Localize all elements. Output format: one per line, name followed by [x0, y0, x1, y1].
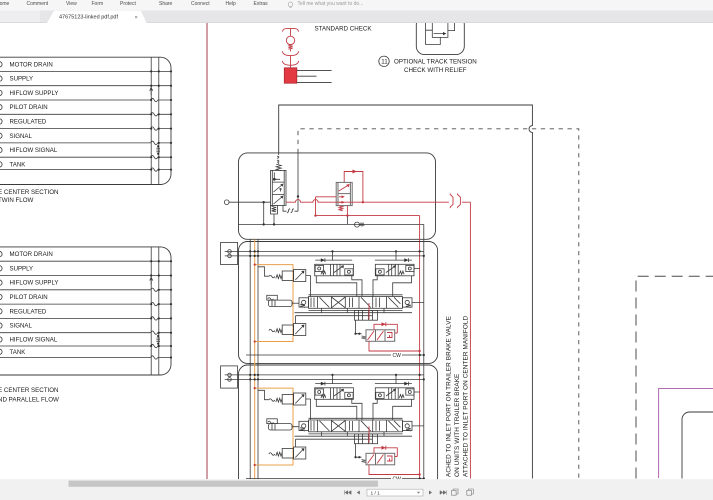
junction dots block 2	[150, 260, 172, 359]
svg-text:11: 11	[381, 59, 388, 66]
numbered circle 11	[379, 56, 389, 66]
menu bar	[0, 0, 713, 11]
coupler stem lines	[297, 70, 332, 82]
V1 spring box drain	[271, 205, 278, 224]
inlet junction drop wire	[263, 202, 265, 224]
relief valve V2 loop check arrow	[353, 170, 358, 174]
hose break bumps block 2	[151, 288, 158, 359]
horizontal scrollbar thumb	[69, 481, 379, 487]
optional check block outline	[416, 17, 464, 55]
purple boundary	[659, 389, 713, 479]
main valve bottom lines	[295, 310, 413, 312]
wire from sub-box to solenoid	[356, 320, 362, 334]
svg-text:SUPPLY: SUPPLY	[10, 265, 34, 272]
svg-text:Connect: Connect	[191, 1, 210, 7]
regulator block outline	[239, 153, 436, 239]
standard check valve symbol (red)	[282, 29, 298, 68]
check arrow symbol in HIFLOW SUPPLY gallery block 1	[150, 88, 153, 95]
svg-text:HIFLOW SUPPLY: HIFLOW SUPPLY	[10, 280, 59, 287]
port circles block 2	[0, 251, 2, 354]
svg-text:PILOT DRAIN: PILOT DRAIN	[10, 294, 48, 301]
svg-text:E CENTER SECTION: E CENTER SECTION	[0, 189, 59, 196]
right link wire	[412, 269, 424, 303]
bottom scroll strip	[0, 479, 713, 500]
tee symbol in HIFLOW SIGNAL gallery block 1	[156, 148, 160, 152]
svg-text:CW: CW	[393, 353, 402, 359]
svg-text:PILOT DRAIN: PILOT DRAIN	[10, 104, 48, 111]
pilot valve A (top)	[269, 270, 311, 297]
orange pilot gallery loop	[255, 265, 293, 342]
svg-text:ATTACHED TO INLET PORT ON CENT: ATTACHED TO INLET PORT ON CENTER MANIFOL…	[463, 315, 470, 477]
svg-text:View: View	[66, 1, 77, 7]
junction dots block 1	[150, 70, 172, 170]
svg-text:Comment: Comment	[27, 1, 49, 7]
tank drain wire	[239, 223, 424, 225]
long dashed boundary right	[636, 276, 713, 478]
svg-text:TANK: TANK	[10, 349, 26, 356]
red branch to relief inlet	[316, 197, 420, 216]
solenoid red pilot loop	[374, 324, 397, 333]
svg-text:Share: Share	[159, 1, 173, 7]
loop check arrow	[382, 322, 386, 326]
supply riser wire top	[279, 105, 533, 479]
inlet port circle	[224, 200, 229, 205]
red main pressure wire	[286, 200, 449, 203]
solenoid valve (red) body	[366, 330, 395, 342]
relief valve V2 body	[336, 182, 352, 205]
solenoid red drain	[369, 341, 420, 351]
tee symbol in HIFLOW SIGNAL gallery block 2	[156, 338, 160, 342]
supply vertical wires	[250, 240, 258, 365]
red coupler block	[284, 68, 297, 83]
svg-text:SIGNAL: SIGNAL	[10, 323, 33, 330]
reducing valve V1 body	[271, 170, 287, 205]
reducing valve V1: top spring	[276, 164, 281, 171]
status bar controls	[345, 490, 360, 494]
V2 drain wire	[346, 206, 348, 216]
svg-text:×: ×	[135, 15, 138, 21]
solenoid red slashes	[368, 331, 393, 340]
tab bar	[0, 11, 713, 24]
assistant bulb icon	[288, 2, 293, 7]
V2 bottom spring (red)	[339, 206, 343, 211]
tank return wire CW	[246, 354, 424, 356]
connector circles	[228, 250, 232, 254]
main valve top line	[309, 294, 403, 296]
inlet wire	[229, 201, 271, 203]
svg-text:SIGNAL: SIGNAL	[10, 133, 33, 140]
relief feeds from bus	[333, 251, 397, 260]
svg-text:ND PARALLEL FLOW: ND PARALLEL FLOW	[0, 397, 59, 404]
svg-text:ACHED TO INLET PORT ON TRAILER: ACHED TO INLET PORT ON TRAILER BRAKE VAL…	[446, 316, 453, 477]
hose break bumps block 1	[151, 98, 158, 171]
pilot accumulator	[267, 295, 299, 306]
pilot sense wire (solid part)	[297, 153, 299, 211]
svg-text:STANDARD CHECK: STANDARD CHECK	[315, 26, 373, 33]
manifold block 2 outline	[0, 247, 171, 375]
black rounded manifold corner bottom right	[682, 412, 713, 479]
V2 red internals	[339, 185, 349, 203]
relief riser A right	[352, 276, 362, 297]
relief riser B left	[373, 276, 377, 297]
V1 drain restrictor loop	[283, 205, 298, 213]
svg-text:Home: Home	[0, 1, 10, 7]
svg-text:OPTIONAL TRACK TENSION: OPTIONAL TRACK TENSION	[394, 59, 477, 66]
svg-text:Protect: Protect	[120, 1, 136, 7]
red hose coupler arcs	[450, 194, 470, 209]
pilot dashed wire	[298, 129, 579, 479]
internal gallery lines block 2	[151, 247, 159, 375]
drain check valve	[355, 222, 360, 227]
svg-text:MOTOR DRAIN: MOTOR DRAIN	[10, 61, 53, 68]
supply bus wires	[225, 251, 424, 256]
svg-text:Help: Help	[226, 1, 237, 7]
svg-text:CHECK WITH RELIEF: CHECK WITH RELIEF	[404, 67, 467, 74]
main control valve	[299, 297, 412, 309]
svg-text:REGULATED: REGULATED	[10, 119, 47, 126]
relief riser B right	[393, 276, 412, 297]
svg-text:SUPPLY: SUPPLY	[10, 76, 34, 83]
red wire down from coupler	[469, 202, 471, 478]
internal gallery lines block 1	[151, 57, 159, 184]
svg-text:HIFLOW SIGNAL: HIFLOW SIGNAL	[10, 337, 58, 344]
pilot valve B (bottom)	[269, 316, 372, 336]
red sheet border line	[206, 23, 208, 479]
bank outline	[239, 242, 438, 364]
svg-text:HIFLOW SIGNAL: HIFLOW SIGNAL	[10, 147, 58, 154]
port circles block 1	[0, 62, 2, 167]
svg-text:HIFLOW SUPPLY: HIFLOW SUPPLY	[10, 90, 59, 97]
svg-text:E CENTER SECTION: E CENTER SECTION	[0, 387, 59, 394]
relief box A	[315, 260, 354, 276]
bus junction dots	[249, 250, 425, 257]
valve drain stubs	[322, 308, 385, 312]
svg-text:ON UNITS WITH TRAILER BRAKE: ON UNITS WITH TRAILER BRAKE	[454, 374, 461, 477]
active tab	[47, 11, 147, 23]
svg-text:1 / 1: 1 / 1	[371, 490, 381, 496]
valve sub-box	[355, 310, 378, 320]
relief riser A left	[316, 276, 357, 297]
manifold block 1 outline	[0, 57, 171, 184]
orange pilot vertical wire	[254, 240, 256, 365]
inlet connector block	[221, 242, 238, 264]
reducing valve V1: orifice squiggle	[277, 153, 279, 164]
port line row separators block 1	[0, 71, 171, 169]
red feed stub into valve	[368, 303, 370, 320]
relief box A check arrow	[321, 258, 325, 262]
svg-text:TWIN FLOW: TWIN FLOW	[0, 197, 34, 204]
svg-text:Form: Form	[92, 1, 104, 7]
internal relief drawing	[426, 14, 455, 45]
port line row separators block 2	[0, 261, 171, 357]
relief box B check arrow	[404, 258, 408, 262]
relief valve V2 red loop	[344, 172, 363, 203]
pilot feed wire	[258, 267, 269, 276]
relief box B	[375, 260, 414, 276]
svg-text:MOTOR DRAIN: MOTOR DRAIN	[10, 251, 53, 258]
check arrow symbol in HIFLOW SUPPLY gallery block 2	[150, 277, 153, 284]
svg-text:47675123-linked pdf.pdf: 47675123-linked pdf.pdf	[59, 15, 118, 21]
svg-text:TANK: TANK	[10, 161, 26, 168]
svg-text:REGULATED: REGULATED	[10, 308, 47, 315]
red signal vertical wire	[419, 216, 421, 479]
svg-text:Extras: Extras	[254, 1, 269, 7]
solenoid spring	[362, 336, 367, 339]
svg-text:Tell me what you want to do...: Tell me what you want to do...	[298, 1, 364, 7]
tank drain drop wire right	[423, 224, 425, 478]
